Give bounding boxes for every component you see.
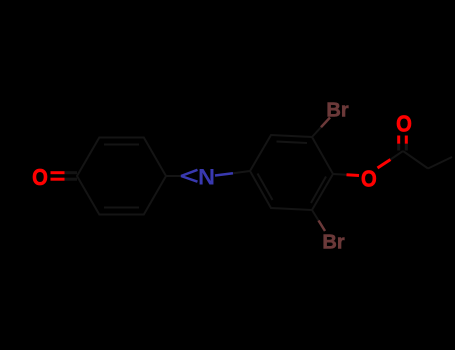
svg-text:N: N xyxy=(198,164,215,189)
svg-text:Br: Br xyxy=(326,100,348,122)
svg-text:Br: Br xyxy=(322,232,344,254)
svg-text:O: O xyxy=(32,164,48,191)
svg-text:O: O xyxy=(396,110,412,137)
svg-text:O: O xyxy=(361,165,377,192)
